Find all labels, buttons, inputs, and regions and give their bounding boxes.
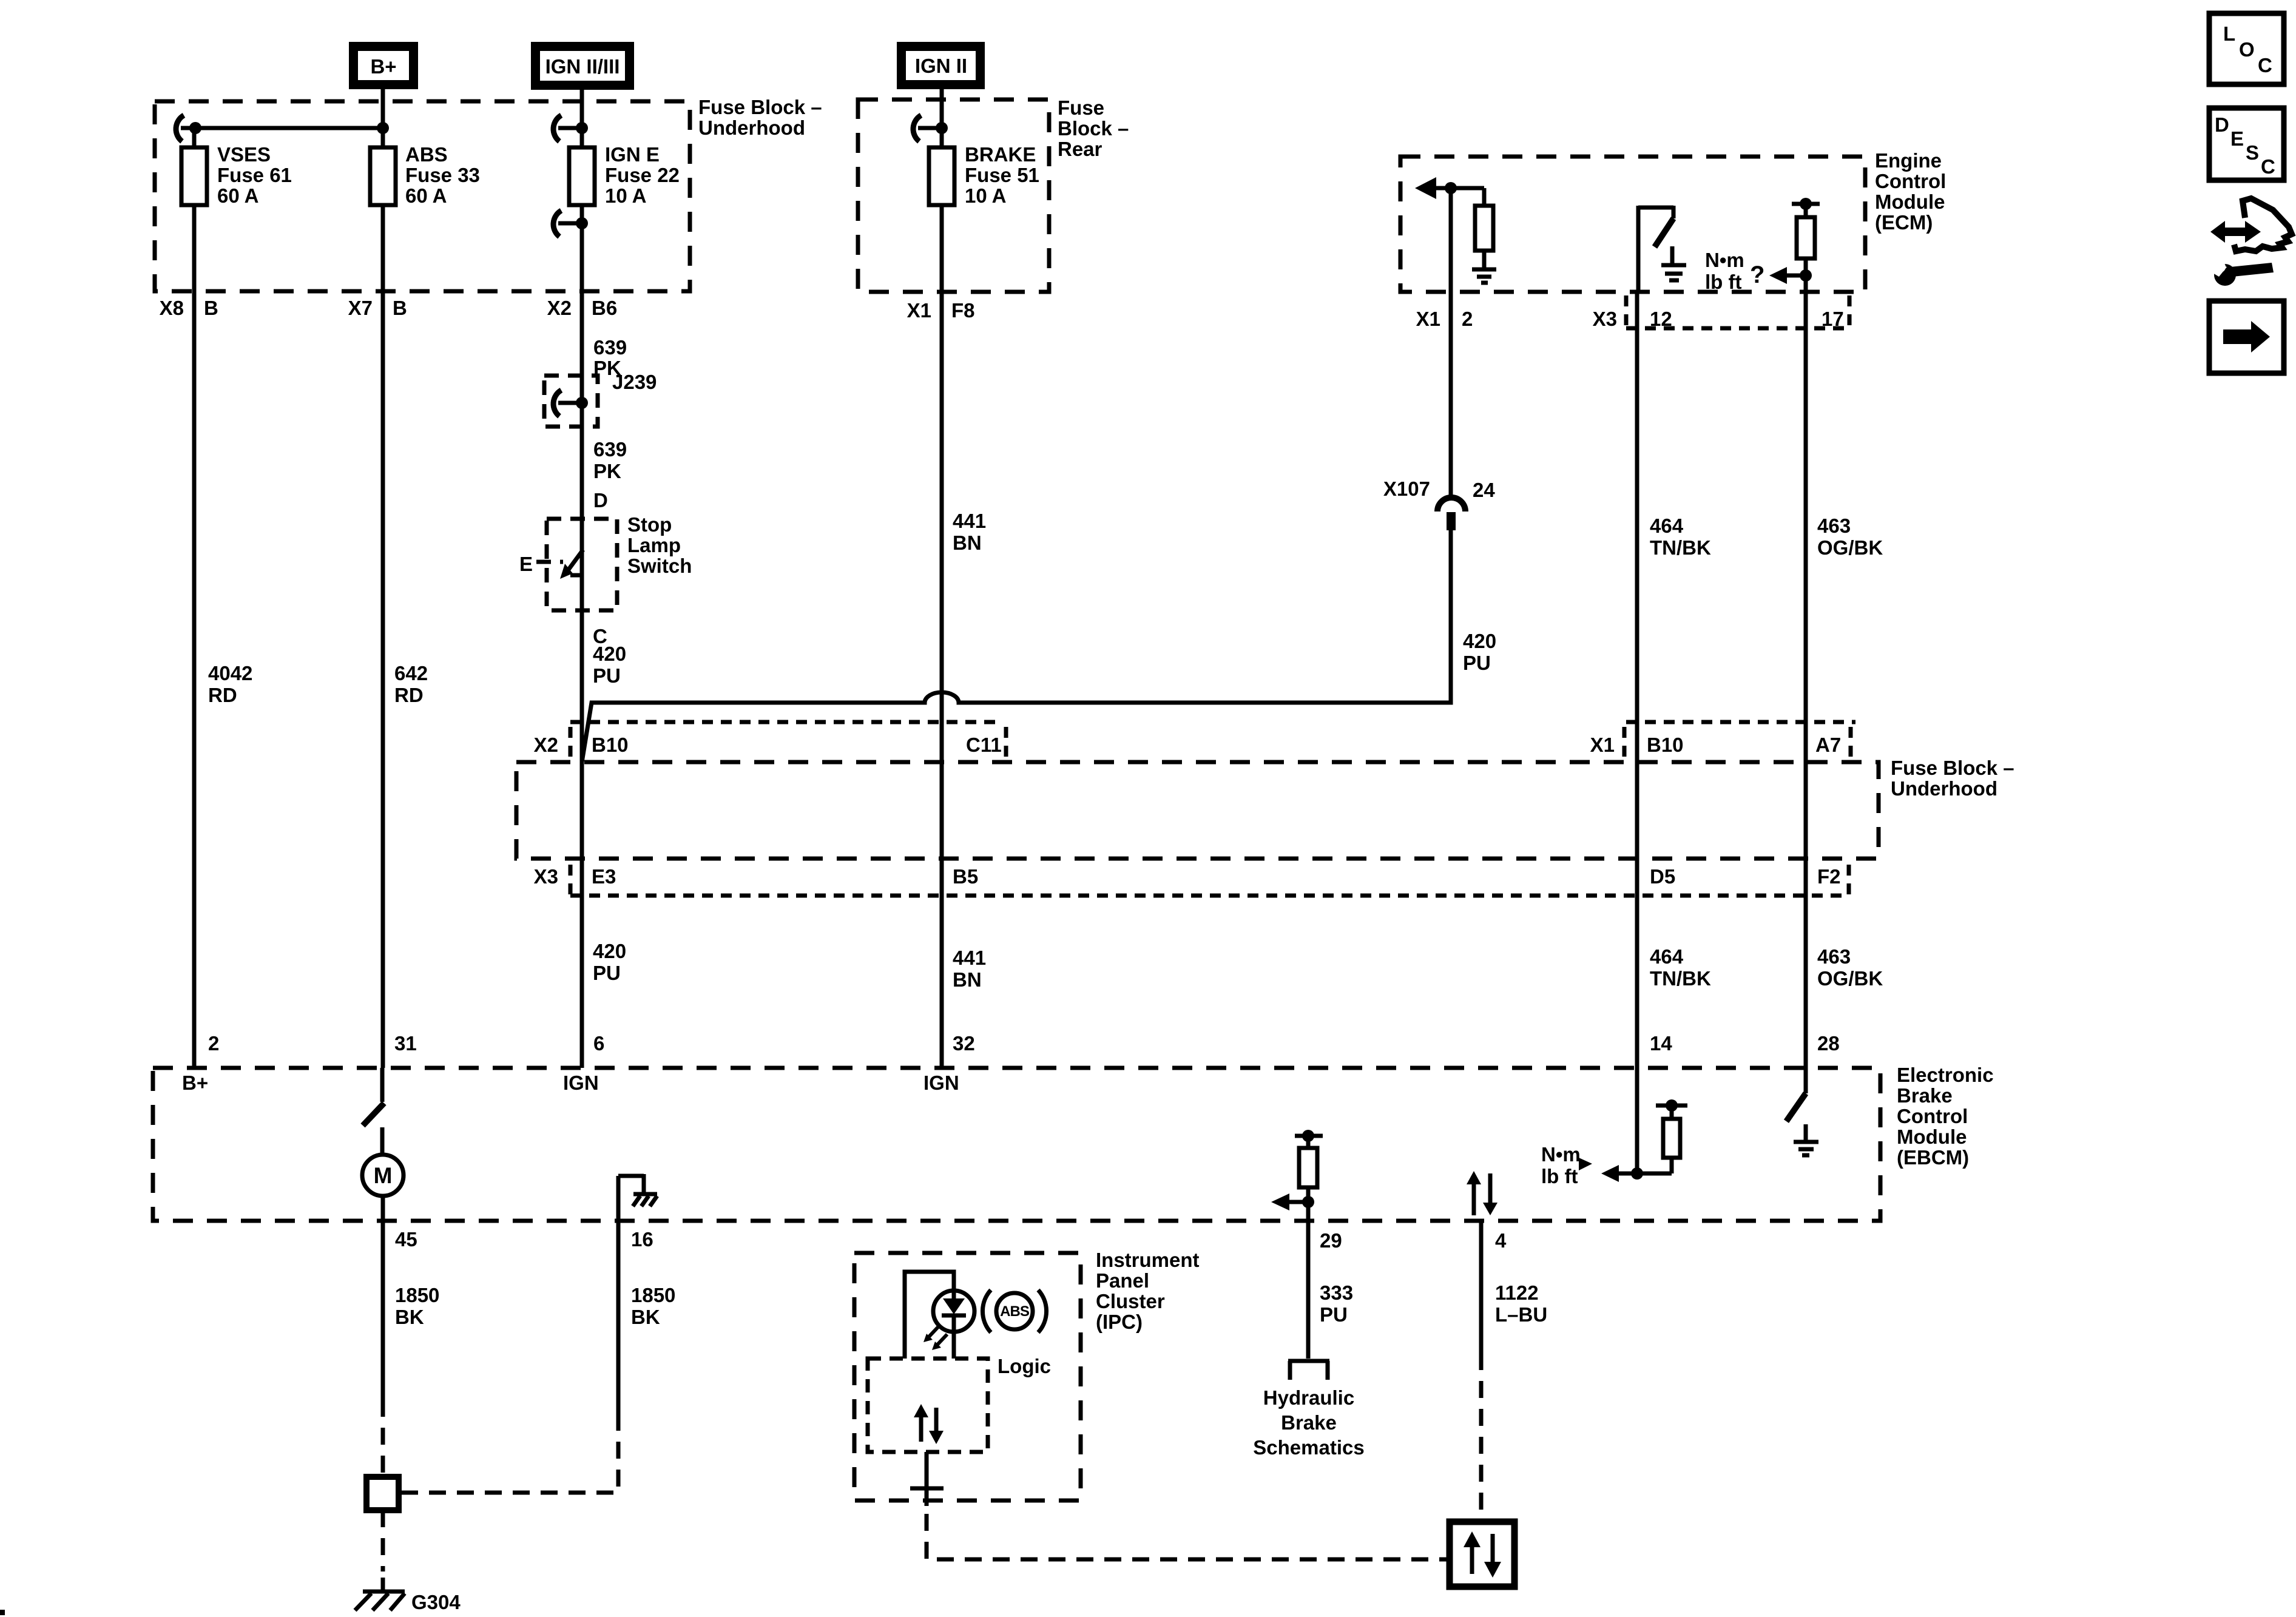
svg-text:Underhood: Underhood — [698, 116, 805, 139]
text hydraulic — [1253, 1386, 1364, 1459]
svg-text:1122: 1122 — [1495, 1281, 1539, 1304]
svg-text:24: 24 — [1473, 479, 1495, 501]
svg-text:O: O — [2239, 38, 2255, 61]
svg-text:420: 420 — [593, 940, 626, 962]
node dot ECM pin2 — [1445, 182, 1457, 194]
icon LOC box — [2209, 13, 2284, 84]
chassis ground symbol EBCM — [633, 1194, 657, 1206]
svg-text:S: S — [2246, 141, 2259, 164]
svg-text:BK: BK — [395, 1306, 424, 1328]
ECM pin2 arrow — [1415, 177, 1484, 199]
svg-text:IGN E: IGN E — [605, 143, 660, 166]
svg-text:Brake: Brake — [1897, 1084, 1953, 1107]
svg-text:?: ? — [1750, 262, 1764, 288]
middle row X2/B10 dotted connector — [570, 722, 1006, 758]
svg-text:TN/BK: TN/BK — [1650, 967, 1711, 990]
svg-text:Cluster: Cluster — [1096, 1290, 1165, 1312]
svg-text:Block –: Block – — [1058, 117, 1129, 140]
svg-text:RD: RD — [208, 684, 237, 706]
svg-text:C: C — [2261, 155, 2275, 178]
svg-text:X1: X1 — [1590, 734, 1615, 756]
svg-text:PU: PU — [1463, 652, 1491, 674]
text IPC label — [1096, 1249, 1200, 1333]
fuse ABS — [370, 147, 396, 205]
text N.m EBCM — [1541, 1143, 1581, 1187]
node dot J239 — [576, 397, 588, 409]
fuse block rear dashed box — [858, 100, 1049, 292]
wire 420 PU horizontal with hop — [582, 530, 1451, 762]
svg-text:PU: PU — [1320, 1303, 1348, 1326]
svg-text:Module: Module — [1875, 191, 1945, 213]
wire clip tick IGN E bottom — [558, 221, 582, 226]
node dot VSES bus — [189, 122, 201, 134]
svg-text:60 A: 60 A — [217, 184, 258, 207]
wire logic output — [910, 1452, 1450, 1559]
svg-text:B6: B6 — [592, 297, 617, 319]
svg-text:IGN: IGN — [923, 1072, 959, 1094]
svg-text:2: 2 — [1462, 308, 1473, 330]
connector clip IGN E top — [553, 115, 561, 141]
IPC dashed box — [854, 1253, 1081, 1501]
svg-text:C: C — [2258, 54, 2272, 76]
motor M — [362, 1155, 403, 1221]
svg-text:X1: X1 — [1416, 308, 1440, 330]
wire B+ feed / ABS fuse wire — [381, 89, 385, 1068]
svg-text:D: D — [593, 489, 608, 511]
node dot ECM pin17 arrow — [1800, 269, 1812, 282]
svg-text:464: 464 — [1650, 945, 1684, 968]
fuse BRAKE — [929, 147, 954, 205]
stop lamp switch blade — [560, 519, 583, 610]
text fuse block underhood middle label — [1891, 757, 2014, 800]
power label IGN II/III — [531, 42, 634, 90]
svg-text:F8: F8 — [951, 299, 975, 322]
svg-text:X7: X7 — [348, 297, 373, 319]
text EBCM top pins — [182, 1032, 1840, 1094]
ground ECM left — [1472, 269, 1496, 283]
svg-text:Logic: Logic — [998, 1355, 1051, 1377]
text N.m ECM — [1705, 249, 1764, 293]
ECM dashed box — [1400, 157, 1865, 292]
svg-text:(IPC): (IPC) — [1096, 1311, 1143, 1333]
svg-text:E: E — [519, 553, 533, 575]
svg-text:Instrument: Instrument — [1096, 1249, 1200, 1271]
wire bus B+ to VSES — [181, 126, 383, 130]
svg-text:BN: BN — [953, 532, 982, 554]
svg-text:464: 464 — [1650, 515, 1684, 537]
svg-text:Hydraulic: Hydraulic — [1263, 1386, 1354, 1409]
svg-text:28: 28 — [1817, 1032, 1840, 1055]
EBCM pin4 serial arrows — [1467, 1171, 1497, 1215]
EBCM 464 resistor + arrow — [1601, 1099, 1687, 1182]
ECM X3 connector dotted row — [1626, 295, 1849, 328]
node dot IGN E top — [576, 122, 588, 134]
hydraulic bracket — [1288, 1361, 1329, 1380]
svg-text:642: 642 — [394, 662, 428, 684]
text ECM pin row — [1416, 308, 1844, 330]
connector clip J239 — [553, 390, 561, 416]
LED emission arrows — [923, 1326, 947, 1350]
svg-text:333: 333 — [1320, 1281, 1353, 1304]
text block labels top — [698, 96, 1946, 234]
svg-text:B: B — [204, 297, 218, 319]
svg-text:F2: F2 — [1817, 865, 1841, 888]
svg-text:OG/BK: OG/BK — [1817, 536, 1883, 559]
logic serial arrows — [914, 1404, 944, 1444]
svg-text:420: 420 — [1463, 630, 1496, 652]
svg-text:RD: RD — [394, 684, 424, 706]
svg-text:4: 4 — [1495, 1229, 1507, 1252]
ABS telltale icon — [982, 1290, 1046, 1332]
svg-text:G304: G304 — [411, 1591, 461, 1613]
fuse IGN E — [569, 147, 595, 205]
svg-text:Schematics: Schematics — [1253, 1436, 1364, 1459]
svg-text:D: D — [2215, 113, 2229, 136]
svg-text:Brake: Brake — [1281, 1411, 1337, 1434]
svg-text:Fuse Block –: Fuse Block – — [698, 96, 822, 118]
svg-text:lb ft: lb ft — [1705, 271, 1741, 293]
svg-text:14: 14 — [1650, 1032, 1672, 1055]
icon wrench-arrow — [2207, 198, 2292, 286]
svg-text:OG/BK: OG/BK — [1817, 967, 1883, 990]
ECM pin 17 resistor branch — [1792, 204, 1820, 1068]
fuse block underhood (top) dashed box — [155, 101, 690, 291]
svg-text:10 A: 10 A — [965, 184, 1006, 207]
svg-text:X1: X1 — [907, 299, 931, 322]
svg-text:ABS: ABS — [405, 143, 448, 166]
svg-text:1850: 1850 — [631, 1284, 675, 1306]
text EBCM label — [1897, 1064, 1994, 1169]
svg-text:Panel: Panel — [1096, 1269, 1149, 1292]
wire clip tick IGN E top — [558, 126, 582, 130]
wire 464 TN/BK — [1635, 292, 1639, 1173]
icon arrow box — [2209, 301, 2284, 373]
EBCM dashed box — [153, 1068, 1880, 1221]
svg-text:441: 441 — [953, 510, 986, 532]
ECM pin17 arrow — [1769, 267, 1806, 284]
middle row X1/B10/A7 dotted connector — [1624, 722, 1855, 758]
wire IGN II feed / BRAKE fuse wire — [940, 88, 944, 1068]
wire clip tick BRAKE top — [918, 126, 942, 130]
fuse block underhood (middle) dashed box — [516, 762, 1879, 859]
svg-text:4042: 4042 — [208, 662, 252, 684]
svg-text:E3: E3 — [592, 865, 616, 888]
node dot ECM pin17 top — [1800, 198, 1812, 210]
text fuse labels — [217, 143, 1039, 207]
svg-text:L–BU: L–BU — [1495, 1303, 1547, 1326]
IPC LED lamp — [905, 1272, 974, 1359]
svg-text:PU: PU — [593, 962, 621, 984]
svg-text:420: 420 — [593, 643, 626, 665]
svg-text:L: L — [2223, 22, 2235, 45]
svg-text:BRAKE: BRAKE — [965, 143, 1036, 166]
wire pin4 1122 L-BU — [1479, 1221, 1484, 1522]
svg-text:17: 17 — [1822, 308, 1844, 330]
svg-text:Rear: Rear — [1058, 138, 1102, 160]
serial data box — [1450, 1522, 1514, 1587]
svg-text:Module: Module — [1897, 1126, 1967, 1148]
svg-text:463: 463 — [1817, 515, 1851, 537]
svg-text:ABS: ABS — [1000, 1303, 1030, 1320]
svg-text:10 A: 10 A — [605, 184, 646, 207]
power label IGN II — [897, 42, 985, 89]
svg-text:463: 463 — [1817, 945, 1851, 968]
svg-text:Engine: Engine — [1875, 149, 1942, 172]
wire splice to ground dashed — [381, 1510, 385, 1591]
icon DESC box — [2209, 108, 2284, 180]
svg-text:C11: C11 — [966, 734, 1002, 756]
svg-text:M: M — [374, 1163, 393, 1188]
svg-text:Fuse 33: Fuse 33 — [405, 164, 480, 186]
svg-text:N•m: N•m — [1705, 249, 1744, 271]
wire 45 1850 BK — [381, 1221, 385, 1478]
svg-text:IGN: IGN — [563, 1072, 599, 1094]
svg-text:45: 45 — [395, 1228, 417, 1251]
splice J239 dashed box — [544, 376, 598, 427]
ground ECM middle — [1661, 246, 1686, 280]
svg-text:Electronic: Electronic — [1897, 1064, 1994, 1086]
svg-text:Fuse: Fuse — [1058, 96, 1104, 119]
svg-text:(ECM): (ECM) — [1875, 211, 1933, 234]
EBCM pin29 arrow — [1271, 1193, 1314, 1210]
resistor ECM left — [1475, 188, 1493, 268]
svg-text:29: 29 — [1320, 1229, 1342, 1252]
ECM switch pin 12 — [1638, 206, 1673, 292]
svg-text:B10: B10 — [1647, 734, 1684, 756]
svg-text:IGN II/III: IGN II/III — [545, 55, 620, 78]
svg-text:lb ft: lb ft — [1541, 1165, 1578, 1187]
svg-text:D5: D5 — [1650, 865, 1675, 888]
splice box — [366, 1477, 399, 1510]
svg-text:X107: X107 — [1383, 478, 1430, 500]
svg-text:TN/BK: TN/BK — [1650, 536, 1711, 559]
svg-text:X8: X8 — [160, 297, 184, 319]
svg-text:Switch: Switch — [627, 555, 692, 577]
svg-text:2: 2 — [208, 1032, 219, 1055]
wire IGN II/III feed — [580, 89, 584, 1068]
wire VSES fuse wire — [192, 128, 197, 1068]
svg-text:B+: B+ — [370, 55, 396, 78]
power label B+ — [349, 42, 418, 89]
svg-text:PK: PK — [593, 460, 621, 482]
svg-text:Stop: Stop — [627, 513, 672, 536]
EBCM switch at pin 31 — [363, 1068, 384, 1155]
svg-text:X2: X2 — [547, 297, 572, 319]
node dot BRAKE top — [936, 122, 948, 134]
wire stop lamp pin E dashed — [536, 560, 563, 564]
connector X107 arc — [1437, 498, 1465, 511]
text middle connector row top — [534, 734, 1842, 756]
connector clip VSES — [176, 115, 184, 141]
EBCM 463 switch + ground — [1786, 1068, 1818, 1155]
connector clip IGN E bottom — [553, 211, 561, 237]
svg-text:1850: 1850 — [395, 1284, 439, 1306]
logic dashed box — [868, 1359, 988, 1452]
svg-text:Fuse 51: Fuse 51 — [965, 164, 1039, 186]
svg-text:639: 639 — [593, 438, 627, 461]
wire 16 1850 BK dashed to splice — [400, 1221, 618, 1493]
svg-text:VSES: VSES — [217, 143, 271, 166]
text EBCM bottom pins — [395, 1228, 1547, 1328]
svg-text:Lamp: Lamp — [627, 534, 681, 556]
connector clip BRAKE top — [913, 115, 921, 141]
node dot ABS bus — [377, 122, 389, 134]
EBCM resistor pin 29 — [1295, 1130, 1323, 1359]
EBCM ground pin 16 — [618, 1174, 644, 1221]
svg-text:Control: Control — [1875, 170, 1946, 192]
connector X107 male stub — [1447, 512, 1456, 530]
svg-text:Fuse Block –: Fuse Block – — [1891, 757, 2014, 779]
svg-text:IGN II: IGN II — [915, 55, 967, 77]
svg-text:60 A: 60 A — [405, 184, 447, 207]
wire clip tick J239 — [558, 401, 582, 405]
svg-text:B10: B10 — [592, 734, 629, 756]
svg-text:6: 6 — [593, 1032, 604, 1055]
svg-text:BN: BN — [953, 968, 982, 991]
stop lamp switch dashed box — [547, 519, 617, 610]
svg-text:Fuse 22: Fuse 22 — [605, 164, 680, 186]
text wire ids mid — [208, 510, 1883, 706]
EBCM N.m arrow small — [1579, 1158, 1592, 1170]
svg-text:16: 16 — [631, 1228, 653, 1251]
svg-text:441: 441 — [953, 947, 986, 969]
svg-text:A7: A7 — [1815, 734, 1841, 756]
svg-text:PU: PU — [593, 664, 621, 687]
page corner mark — [0, 1610, 5, 1615]
text X107 — [1383, 478, 1496, 674]
svg-text:(EBCM): (EBCM) — [1897, 1146, 1969, 1169]
svg-text:X3: X3 — [534, 865, 558, 888]
svg-text:B+: B+ — [182, 1072, 208, 1094]
svg-text:J239: J239 — [612, 371, 657, 393]
fuse VSES — [181, 147, 207, 205]
text wire ids lower — [593, 940, 1883, 991]
text wire ids column IGN E — [519, 336, 692, 687]
text middle connector row bottom — [534, 865, 1841, 888]
ground G304 — [355, 1592, 405, 1610]
svg-text:31: 31 — [394, 1032, 417, 1055]
svg-text:N•m: N•m — [1541, 1143, 1581, 1166]
svg-text:32: 32 — [953, 1032, 975, 1055]
svg-text:Fuse 61: Fuse 61 — [217, 164, 292, 186]
svg-text:B5: B5 — [953, 865, 978, 888]
svg-text:E: E — [2230, 127, 2244, 150]
svg-text:BK: BK — [631, 1306, 660, 1328]
svg-text:12: 12 — [1650, 308, 1672, 330]
svg-text:639: 639 — [593, 336, 627, 359]
svg-text:B: B — [393, 297, 407, 319]
text pin row A — [160, 297, 975, 322]
node dot IGN E bottom — [576, 217, 588, 229]
wire ECM pin 2 to X107 — [1449, 188, 1453, 496]
svg-text:X3: X3 — [1593, 308, 1617, 330]
bottom row dotted connector line — [570, 865, 1849, 896]
svg-text:Control: Control — [1897, 1105, 1968, 1127]
svg-text:Underhood: Underhood — [1891, 777, 1997, 800]
svg-text:X2: X2 — [534, 734, 558, 756]
